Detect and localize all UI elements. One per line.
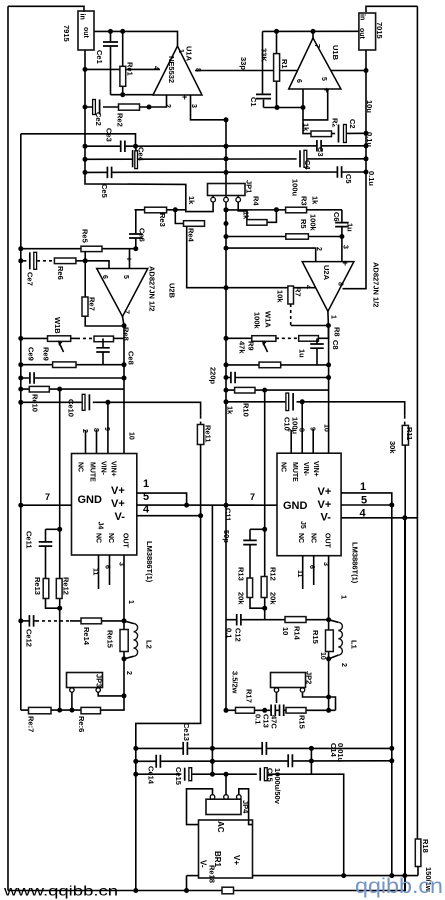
svg-text:10: 10 — [319, 652, 326, 660]
capacitor C3 — [316, 140, 322, 152]
svg-text:OUT: OUT — [324, 533, 331, 549]
svg-text:6: 6 — [295, 79, 302, 83]
capacitor Ce15 — [181, 768, 192, 781]
resistor Re17 — [29, 707, 52, 713]
svg-text:C1: C1 — [249, 97, 258, 107]
wire IC2 pin9 stub — [312, 429, 314, 453]
JP1 pin circle 2 — [224, 197, 229, 202]
svg-text:Re14: Re14 — [82, 627, 91, 646]
svg-text:11: 11 — [92, 568, 99, 576]
wire Ce8 down — [102, 352, 104, 365]
svg-text:C8: C8 — [331, 340, 340, 350]
svg-text:AD827JN 1/2: AD827JN 1/2 — [372, 262, 381, 307]
wire rail x226 — [225, 120, 227, 198]
wire IC2 pin3 stub — [328, 556, 330, 620]
svg-text:1k: 1k — [187, 196, 196, 205]
svg-text:0.1: 0.1 — [254, 714, 263, 724]
resistor Re8 — [94, 336, 114, 342]
svg-text:C13: C13 — [262, 714, 271, 728]
JP2 circle R — [300, 688, 304, 692]
svg-text:JP4: JP4 — [241, 800, 250, 814]
svg-text:Ce11: Ce11 — [25, 531, 34, 549]
op-amp U1B — [289, 38, 341, 89]
svg-text:5: 5 — [361, 495, 367, 507]
svg-text:0.1: 0.1 — [225, 628, 234, 638]
wire x20 rail — [20, 134, 22, 710]
svg-text:V+: V+ — [318, 499, 332, 511]
svg-text:Re15: Re15 — [106, 630, 115, 648]
svg-text:8: 8 — [92, 428, 99, 432]
svg-text:Ce9: Ce9 — [27, 347, 36, 361]
JP4 circle M — [224, 795, 229, 800]
svg-text:1000u/50v: 1000u/50v — [273, 768, 282, 805]
wire x392 down — [391, 505, 393, 876]
wire L2 node — [123, 621, 125, 659]
svg-text:V+: V+ — [111, 485, 125, 497]
svg-text:7015: 7015 — [375, 22, 384, 39]
wire top-right 7015 in to right rail — [366, 6, 417, 12]
svg-text:4: 4 — [360, 508, 367, 520]
svg-text:1u: 1u — [346, 223, 355, 232]
capacitor C10 — [285, 393, 296, 411]
svg-text:R5: R5 — [299, 219, 308, 229]
resistor Re1 — [120, 66, 126, 86]
resistor R2 — [311, 131, 332, 137]
svg-text:1k: 1k — [242, 211, 251, 220]
svg-text:10k: 10k — [276, 290, 285, 303]
wire IC2 gnd — [226, 504, 277, 506]
capacitor Ce3 — [120, 140, 126, 152]
wire jp4 R — [239, 789, 253, 825]
svg-text:Ce6: Ce6 — [138, 228, 147, 242]
svg-text:4: 4 — [304, 285, 311, 289]
wire R10 line — [226, 389, 329, 391]
connector JP3 box — [67, 673, 103, 688]
capacitor Ce4 — [133, 150, 136, 169]
svg-text:7915: 7915 — [62, 25, 71, 42]
wire row1 — [136, 747, 392, 749]
wire x213 col — [211, 505, 213, 774]
svg-text:7: 7 — [45, 492, 50, 502]
connector JP1 box — [208, 184, 246, 196]
svg-text:GND: GND — [283, 500, 308, 512]
resistor R14 — [285, 617, 306, 623]
wire Re5 down — [84, 252, 86, 261]
svg-text:NC: NC — [95, 533, 102, 543]
wire Re7 branch — [84, 261, 86, 297]
svg-text:2: 2 — [315, 247, 322, 251]
wire IC1 w2 — [137, 504, 277, 506]
svg-text:R8: R8 — [333, 327, 342, 337]
capacitor Ce8 plates — [96, 347, 110, 353]
svg-text:R11: R11 — [405, 427, 414, 440]
svg-text:Re4: Re4 — [187, 228, 196, 243]
resistor R11 — [402, 425, 408, 445]
wire Ce8 up — [102, 338, 104, 347]
wire C8 up — [316, 338, 318, 344]
wire Re13 bot — [46, 599, 60, 609]
wire C1 branch — [262, 31, 264, 93]
svg-text:in: in — [79, 14, 86, 20]
svg-text:R15: R15 — [311, 630, 320, 644]
wire rail x226 lower — [225, 202, 227, 710]
svg-text:Re5: Re5 — [81, 229, 90, 243]
svg-text:LM3886T(1): LM3886T(1) — [351, 542, 360, 584]
capacitor C13r — [262, 742, 268, 755]
wire Ce11 stub dn — [45, 546, 47, 579]
svg-text:V+: V+ — [318, 486, 332, 498]
svg-text:V+: V+ — [232, 855, 241, 865]
resistor Re6 — [54, 258, 76, 264]
svg-text:Ce12: Ce12 — [25, 629, 34, 647]
svg-text:W1B: W1B — [53, 317, 62, 334]
resistor R18 — [415, 839, 421, 867]
wire IC1 pin3 stub — [123, 555, 125, 621]
wire pin2 line — [226, 248, 316, 262]
dots U2A area — [224, 234, 229, 239]
wire Re6 dash — [37, 260, 54, 262]
svg-text:4: 4 — [152, 66, 159, 70]
wire IC1 w3 — [136, 516, 201, 891]
amp IC J4 box — [72, 454, 137, 556]
svg-text:100u: 100u — [291, 179, 300, 197]
wire Ce9 line — [21, 377, 124, 379]
svg-text:7: 7 — [313, 44, 320, 48]
wire JP2 L stub — [276, 692, 278, 703]
wire V+ y70.5 — [195, 70, 366, 72]
pot W1A — [252, 336, 276, 342]
svg-text:6: 6 — [308, 565, 315, 569]
svg-text:C12: C12 — [234, 628, 243, 642]
svg-text:out: out — [82, 27, 89, 39]
wire y146 — [85, 145, 366, 147]
svg-text:30k: 30k — [388, 441, 397, 454]
wire IC1 pin11 stub — [98, 555, 100, 589]
capacitor Ce2 — [92, 100, 103, 115]
dots U1B area — [274, 29, 279, 34]
wire C10 pin stub — [301, 402, 303, 453]
svg-text:Ce13: Ce13 — [182, 723, 191, 741]
wire Ce11 top — [46, 528, 60, 530]
resistor R9 — [259, 362, 281, 368]
wire jp4 L — [187, 789, 213, 825]
svg-text:NC: NC — [107, 533, 114, 543]
svg-text:R3: R3 — [300, 196, 309, 206]
wire R14 right — [306, 619, 329, 621]
wire W1A line — [226, 337, 252, 339]
svg-text:NC: NC — [310, 533, 317, 543]
wire Ce10 line — [21, 402, 201, 415]
transformer AC BR1 box — [199, 820, 253, 878]
wire 7915 out right — [94, 31, 178, 46]
svg-text:NC: NC — [280, 462, 287, 472]
resistor Re5 — [81, 246, 102, 251]
svg-text:1k: 1k — [226, 406, 235, 415]
svg-text:Re:6: Re:6 — [77, 716, 86, 732]
svg-text:8: 8 — [337, 282, 344, 286]
wire IC1 w1 — [137, 493, 187, 505]
wire x405 down — [404, 518, 406, 891]
svg-text:47k: 47k — [238, 341, 247, 354]
dots jp2 — [224, 708, 229, 713]
JP1 pin circle 3 — [237, 196, 239, 198]
svg-text:Ce2: Ce2 — [94, 112, 103, 126]
svg-text:U2B: U2B — [168, 283, 177, 299]
svg-text:C6: C6 — [332, 212, 341, 222]
wire C9 line — [226, 377, 329, 379]
svg-text:3: 3 — [118, 562, 125, 566]
svg-text:Re1: Re1 — [126, 62, 135, 76]
svg-text:qqibb.cn: qqibb.cn — [355, 875, 443, 898]
svg-text:33K: 33K — [260, 48, 269, 62]
svg-text:V-: V- — [199, 860, 208, 868]
wire out down — [123, 326, 125, 454]
svg-text:Re18: Re18 — [208, 865, 217, 883]
svg-text:R4: R4 — [252, 196, 261, 206]
svg-text:VIN+: VIN+ — [312, 461, 319, 477]
resistor Re2 — [119, 104, 140, 110]
svg-text:Ce4: Ce4 — [137, 147, 146, 162]
svg-text:R12: R12 — [269, 567, 278, 581]
wire C11 stub dn — [249, 545, 251, 578]
svg-text:2: 2 — [81, 429, 88, 433]
wire R11 down — [8, 445, 405, 890]
dots bank — [133, 746, 138, 751]
svg-text:out: out — [358, 28, 365, 40]
wire C11 stub up — [249, 529, 251, 540]
svg-text:1k: 1k — [302, 123, 311, 132]
svg-text:C5: C5 — [344, 174, 353, 184]
wire Ce12 dash — [36, 620, 70, 622]
svg-text:Ce8: Ce8 — [127, 351, 136, 365]
svg-text:9: 9 — [309, 427, 316, 431]
resistor Re13 — [43, 579, 49, 599]
svg-text:33p: 33p — [239, 57, 248, 70]
wire gnd y69 — [85, 68, 160, 70]
svg-text:1: 1 — [330, 315, 337, 319]
svg-text:100k: 100k — [309, 214, 318, 232]
inductor L1 — [329, 620, 339, 623]
svg-text:L2: L2 — [145, 640, 154, 649]
wire y172 — [85, 171, 366, 173]
resistor R12 — [261, 577, 267, 598]
junction dots 7915 area — [83, 67, 88, 72]
capacitor C8 plates — [310, 343, 324, 349]
wire left border rail — [7, 6, 9, 890]
resistor Re15 — [120, 630, 128, 652]
wire Re4 to R7wire — [187, 224, 316, 288]
wire Re6 line — [21, 260, 37, 262]
svg-text:Re12: Re12 — [62, 577, 71, 595]
svg-text:JP2: JP2 — [305, 671, 314, 684]
svg-text:OUT: OUT — [122, 533, 129, 549]
resistor Re4 — [184, 221, 205, 227]
svg-text:AD827JN 1/2: AD827JN 1/2 — [148, 266, 157, 311]
resistor R4 — [247, 220, 267, 226]
capacitor C14 — [288, 754, 294, 767]
wire W1B line — [21, 337, 48, 339]
op-amp U2B — [97, 269, 148, 317]
svg-text:Re3: Re3 — [158, 213, 167, 227]
wire Re11 down — [200, 445, 202, 516]
wire IC2 w2 — [341, 504, 392, 506]
resistor Re18 — [222, 887, 234, 894]
svg-text:LM3886T(1): LM3886T(1) — [145, 541, 154, 583]
svg-text:47C: 47C — [270, 715, 279, 729]
wire Re10 line — [21, 388, 124, 390]
capacitor C11 — [243, 540, 257, 546]
resistor Re14 — [81, 618, 102, 624]
svg-text:+: + — [343, 258, 348, 268]
op-amp U2A — [302, 262, 354, 312]
wire U2B pin5 — [129, 249, 131, 269]
resistor R3 — [286, 207, 307, 213]
svg-text:2: 2 — [340, 663, 347, 667]
svg-text:L1: L1 — [350, 640, 359, 649]
resistor Re3 — [145, 207, 167, 213]
svg-text:NC: NC — [77, 462, 84, 472]
svg-text:www.qqibb.cn: www.qqibb.cn — [3, 883, 118, 899]
wire R11 dash — [404, 416, 406, 426]
svg-text:MUTE: MUTE — [89, 462, 96, 482]
wire JP1 pin3 to R4 — [238, 202, 247, 222]
capacitor C6 — [335, 222, 349, 227]
svg-text:7: 7 — [123, 310, 130, 314]
wire IC1 gnd — [21, 504, 72, 506]
wire Re17-Re16 — [51, 709, 81, 711]
wire R7 dash — [290, 304, 292, 326]
wire y107.5 — [264, 107, 304, 109]
svg-text:2: 2 — [125, 671, 132, 675]
capacitor C12 — [236, 614, 242, 626]
wire right rail — [416, 6, 418, 839]
svg-text:10: 10 — [128, 432, 135, 440]
svg-text:U1B: U1B — [331, 45, 340, 61]
wire Re7 bottom — [85, 316, 124, 326]
svg-text:R1: R1 — [280, 59, 289, 69]
svg-text:R14: R14 — [293, 626, 302, 641]
svg-text:9: 9 — [103, 427, 110, 431]
svg-text:7: 7 — [250, 492, 255, 502]
svg-text:C4: C4 — [303, 160, 312, 170]
wire L1 node — [328, 620, 330, 659]
capacitor C5 — [337, 166, 343, 178]
wire R9 line — [226, 364, 329, 366]
regulator 7915 box — [78, 11, 94, 50]
wire 7915 gnd rail x85 — [85, 50, 213, 212]
svg-text:3: 3 — [342, 245, 349, 249]
svg-text:10: 10 — [281, 627, 290, 635]
svg-text:5: 5 — [143, 491, 149, 503]
resistor Re9 — [53, 362, 76, 368]
capacitor C13 — [270, 705, 276, 717]
svg-text:Ce10: Ce10 — [67, 399, 76, 417]
regulator 7015 box — [359, 13, 376, 50]
capacitor C9 — [230, 372, 236, 384]
wire W1B to Re8 a — [71, 337, 77, 339]
wire 7015 gnd rail x366 — [343, 50, 367, 289]
resistor Re12 — [56, 579, 62, 599]
svg-text:100k: 100k — [253, 312, 262, 330]
wire Re8 right — [114, 337, 125, 339]
wire R11 line — [226, 402, 405, 416]
svg-text:1k: 1k — [311, 196, 320, 205]
capacitor Ce5 — [107, 167, 113, 179]
wire R2 to C2 — [332, 132, 367, 134]
svg-text:1: 1 — [143, 478, 149, 490]
W1A wiper — [264, 345, 268, 353]
wire Re11 dash — [200, 416, 202, 425]
svg-text:5: 5 — [122, 275, 129, 279]
svg-text:V-: V- — [115, 511, 126, 523]
wire IC2 pin6 stub — [313, 556, 315, 585]
svg-text:J4: J4 — [97, 522, 104, 530]
wire U1B apex — [312, 31, 314, 38]
capacitor C13b — [279, 705, 285, 717]
svg-text:1: 1 — [177, 49, 184, 53]
svg-text:AC: AC — [216, 821, 225, 833]
wire C6 branch — [341, 210, 343, 262]
wire U1A pin2 net — [85, 95, 167, 107]
wire bus upper L down — [186, 876, 188, 891]
svg-text:1u: 1u — [298, 349, 307, 358]
wire U1A pin3 net — [191, 95, 227, 120]
svg-text:6: 6 — [104, 565, 111, 569]
wire IC2 w3 — [341, 517, 417, 519]
amp IC J5 box — [277, 453, 341, 556]
svg-text:R7: R7 — [294, 287, 303, 297]
resistor R15h — [286, 708, 306, 714]
wire y325 — [291, 325, 329, 327]
svg-text:R17: R17 — [245, 689, 254, 703]
pot W1B — [48, 336, 71, 342]
wire Re4 line — [175, 210, 204, 224]
capacitor Ce7 — [26, 252, 37, 269]
JP3 circle L — [70, 688, 74, 692]
resistor R5 — [286, 234, 309, 239]
svg-text:3: 3 — [322, 562, 329, 566]
wire row3 — [136, 774, 344, 875]
wire top-left to 7915 in — [8, 6, 84, 12]
svg-text:2: 2 — [164, 104, 171, 108]
wire R1 branch — [276, 31, 278, 107]
wire bus upper L — [187, 875, 199, 877]
svg-text:Re11: Re11 — [204, 425, 213, 443]
wire IC1 pin6 stub — [109, 555, 111, 585]
wire R3 line — [226, 209, 342, 211]
svg-text:Ce1: Ce1 — [95, 50, 104, 64]
svg-text:J5: J5 — [299, 521, 306, 529]
capacitor Ce1 — [103, 41, 118, 46]
wire x265 branch — [264, 390, 266, 620]
svg-text:Re13: Re13 — [33, 577, 42, 595]
svg-text:0.1u: 0.1u — [367, 171, 376, 186]
wire row2 — [136, 760, 392, 763]
capacitor Ce6 — [129, 233, 143, 238]
svg-text:GND: GND — [78, 494, 103, 506]
svg-text:JP1: JP1 — [245, 180, 254, 193]
svg-text:3.5/2w: 3.5/2w — [231, 671, 240, 694]
capacitor C1 — [256, 94, 271, 100]
svg-text:2: 2 — [287, 428, 294, 432]
resistor R17 — [236, 707, 255, 713]
dots center rails — [83, 144, 88, 149]
wire out down right — [328, 326, 330, 454]
wire IC1 pin2 stub — [85, 430, 87, 454]
svg-text:U1A: U1A — [185, 46, 194, 62]
svg-text:11: 11 — [296, 570, 303, 578]
wire W1B to Re8 dash — [77, 337, 94, 339]
